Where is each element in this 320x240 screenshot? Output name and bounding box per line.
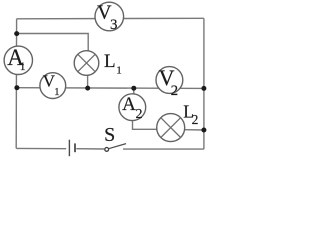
node: junction dot right rail at L2 wire bbox=[201, 128, 206, 133]
svg-text:S: S bbox=[104, 124, 115, 146]
ammeter A1 bbox=[4, 45, 32, 74]
wire: A2 top lead bbox=[133, 88, 135, 94]
svg-text:3: 3 bbox=[110, 17, 118, 33]
battery long plate bbox=[68, 140, 70, 157]
wire: L2 right lead to right rail bbox=[185, 129, 204, 131]
svg-text:A: A bbox=[122, 94, 136, 115]
wire: L1 bottom lead to middle rail bbox=[87, 75, 89, 88]
voltmeter V3 bbox=[95, 1, 124, 33]
svg-text:1: 1 bbox=[20, 59, 26, 73]
wire: right vertical rail bbox=[203, 18, 205, 149]
lamp L2 bbox=[157, 114, 185, 142]
wire: battery to switch segment bbox=[76, 148, 104, 150]
voltmeter V2 bbox=[156, 65, 183, 99]
label L1 bbox=[104, 51, 122, 77]
wire: A2 bottom lead to lamp L2 bbox=[133, 120, 158, 129]
switch S lever bbox=[109, 144, 126, 149]
battery short plate bbox=[74, 143, 76, 152]
switch S pivot bbox=[105, 148, 109, 152]
wire: switch right contact to bottom-right corner bbox=[123, 148, 204, 150]
node: junction dot left upper bbox=[14, 31, 19, 36]
svg-text:2: 2 bbox=[136, 107, 143, 122]
wire: top rail through V3 bbox=[17, 17, 204, 20]
svg-text:L: L bbox=[104, 51, 116, 72]
svg-text:2: 2 bbox=[171, 83, 179, 99]
wire: L1 branch from node to lamp L1 bbox=[17, 34, 89, 52]
voltmeter V1 bbox=[40, 71, 66, 98]
label L2 bbox=[183, 101, 198, 127]
svg-text:1: 1 bbox=[54, 86, 60, 98]
node: junction dot under L1 bbox=[85, 86, 90, 91]
ammeter A2 bbox=[119, 94, 146, 122]
wire: bottom rail left segment to battery bbox=[16, 147, 66, 149]
node: junction dot right rail at V2 wire bbox=[201, 86, 206, 91]
svg-text:1: 1 bbox=[116, 65, 122, 77]
lamp L1 bbox=[74, 51, 99, 76]
node: junction dot above A2 bbox=[131, 86, 136, 91]
wire: middle rail through V1 and V2 bbox=[17, 87, 204, 90]
wire: left vertical rail bbox=[15, 19, 17, 149]
svg-text:2: 2 bbox=[192, 112, 199, 127]
node: junction dot left middle bbox=[14, 85, 19, 90]
